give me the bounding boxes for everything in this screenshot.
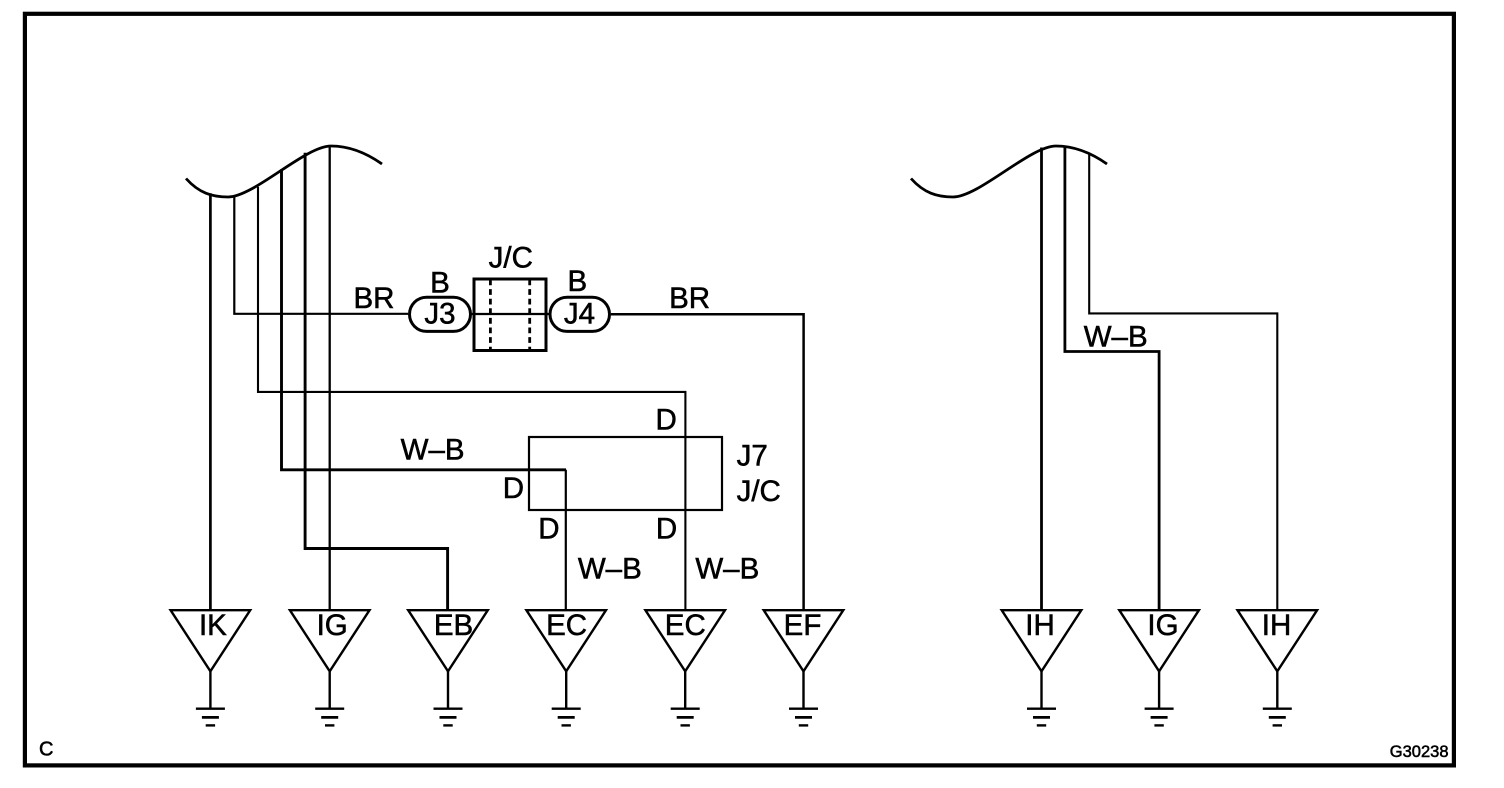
figure number G30238 (1390, 743, 1449, 761)
svg-text:EF: EF (784, 609, 822, 642)
connector J4 (550, 297, 610, 331)
svg-text:IH: IH (1025, 609, 1055, 642)
label B right (567, 265, 587, 298)
wire right A to IH (1040, 148, 1043, 611)
svg-text:B: B (567, 265, 587, 298)
wire right B W-B to IG (1065, 146, 1159, 610)
label W-B left (401, 434, 465, 467)
svg-text:J/C: J/C (489, 242, 533, 275)
svg-text:W–B: W–B (1084, 321, 1148, 354)
svg-text:EC: EC (546, 609, 587, 642)
svg-text:W–B: W–B (401, 434, 465, 467)
svg-text:BR: BR (354, 282, 395, 315)
label BR left (354, 282, 395, 315)
label W-B under EC right (695, 552, 759, 585)
label J/C above box (489, 242, 533, 275)
ground connector EC left (526, 609, 606, 725)
ground connector EF (764, 609, 844, 725)
svg-text:B: B (430, 266, 450, 299)
svg-text:BR: BR (669, 282, 710, 315)
label BR right (669, 282, 710, 315)
svg-text:D: D (656, 512, 677, 545)
label B left (430, 266, 450, 299)
svg-text:EB: EB (434, 609, 473, 642)
svg-text:J3: J3 (424, 298, 455, 331)
pin label D bottom-left (538, 512, 559, 545)
svg-text:J4: J4 (564, 298, 595, 331)
wire W4 W-B to EC (left) (282, 169, 567, 610)
svg-text:C: C (39, 739, 53, 761)
svg-text:D: D (503, 472, 524, 505)
wire BR from J4 to EF (611, 314, 804, 610)
svg-text:W–B: W–B (578, 552, 642, 585)
connector J3 (410, 297, 471, 331)
junction block J/C box (473, 279, 548, 351)
label J/C of J7 (737, 475, 781, 508)
ground connector EB (408, 609, 488, 725)
svg-text:D: D (538, 512, 559, 545)
wire right C to IH (1089, 153, 1277, 610)
label W-B right section (1084, 321, 1148, 354)
pin label D bottom-right (656, 512, 677, 545)
ground connector IH left (1002, 609, 1082, 725)
ground connector IK (171, 609, 251, 725)
wire W6 to IG (329, 146, 331, 610)
wire W5 to EB (305, 153, 448, 610)
wire J3-J4 link through J/C (470, 313, 550, 315)
junction block J7 box (529, 437, 722, 510)
ground connector EC right (645, 609, 725, 725)
pin label D left (503, 472, 524, 505)
label J7 (737, 439, 768, 472)
svg-text:IG: IG (1147, 609, 1178, 642)
ground connector IG (290, 609, 370, 725)
svg-text:IK: IK (199, 609, 227, 642)
wire W2 BR to J3 (234, 196, 408, 314)
ground connector IG right (1119, 609, 1199, 725)
svg-text:D: D (656, 403, 677, 436)
svg-text:IH: IH (1262, 609, 1292, 642)
svg-text:EC: EC (665, 609, 706, 642)
svg-text:J/C: J/C (737, 475, 781, 508)
harness break wave left (186, 146, 382, 197)
wire W1 to IK (209, 193, 212, 610)
svg-text:IG: IG (317, 609, 348, 642)
harness break wave right (911, 146, 1107, 197)
figure index C (39, 739, 53, 761)
ground connector IH right (1238, 609, 1318, 725)
pin label D top (656, 403, 677, 436)
svg-text:J7: J7 (737, 439, 768, 472)
svg-text:G30238: G30238 (1390, 743, 1449, 761)
svg-text:W–B: W–B (695, 552, 759, 585)
wire W3 to EC (right) (258, 187, 685, 610)
label W-B under EC left (578, 552, 642, 585)
